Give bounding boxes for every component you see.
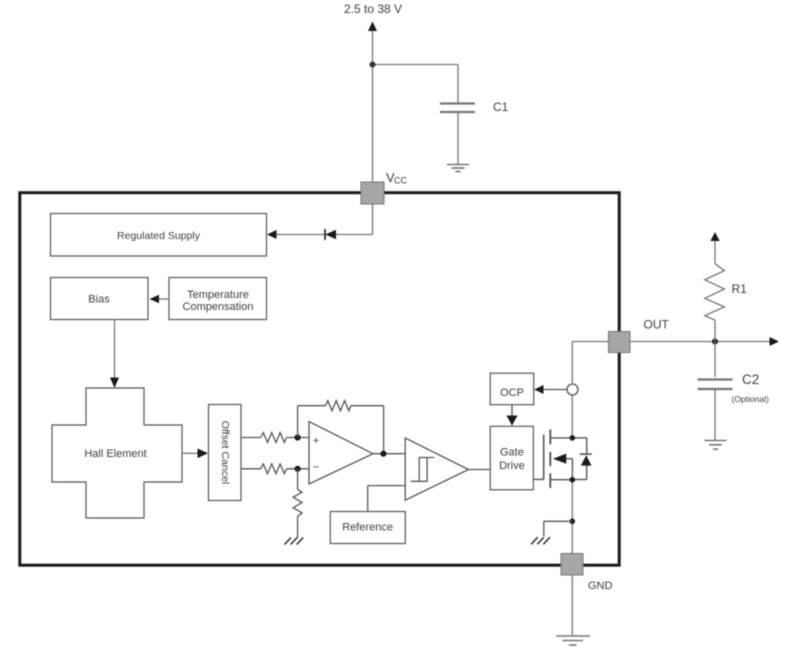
svg-text:OUT: OUT: [644, 318, 670, 332]
svg-text:+: +: [313, 435, 319, 447]
svg-text:Bias: Bias: [88, 294, 110, 306]
svg-text:Drive: Drive: [499, 460, 525, 472]
svg-text:Hall Element: Hall Element: [84, 448, 146, 460]
svg-text:Gate: Gate: [500, 447, 524, 459]
svg-text:C2: C2: [742, 372, 759, 387]
svg-text:R1: R1: [732, 282, 748, 296]
svg-text:Reference: Reference: [342, 522, 393, 534]
svg-text:2.5 to 38 V: 2.5 to 38 V: [344, 2, 402, 16]
svg-text:Temperature: Temperature: [187, 289, 249, 301]
svg-text:Compensation: Compensation: [183, 301, 254, 313]
svg-text:−: −: [313, 462, 319, 474]
svg-text:OCP: OCP: [500, 387, 524, 399]
svg-text:CC: CC: [394, 176, 407, 186]
svg-text:(Optional): (Optional): [732, 394, 769, 404]
svg-text:Regulated Supply: Regulated Supply: [117, 230, 201, 242]
svg-text:C1: C1: [493, 100, 509, 114]
svg-text:GND: GND: [588, 580, 613, 592]
svg-text:Offset Cancel: Offset Cancel: [219, 421, 231, 484]
